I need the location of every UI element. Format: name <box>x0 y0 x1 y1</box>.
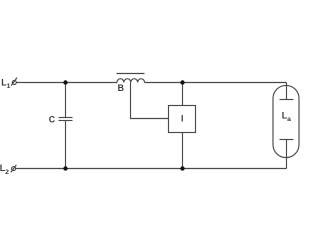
svg-text:L2: L2 <box>0 163 9 176</box>
junction dot: capacitor bottom <box>63 166 67 170</box>
svg-text:I: I <box>181 114 183 124</box>
lamp bottom electrode <box>280 140 294 169</box>
wire: ignitor box down to bottom wire <box>182 133 184 169</box>
junction dot: capacitor top <box>63 80 67 84</box>
lamp top electrode <box>280 83 294 100</box>
ignitor box I <box>169 106 196 133</box>
junction dot: ignitor bottom <box>180 166 184 170</box>
wire bottom: L2 terminal to lamp bottom stem corner <box>16 168 287 170</box>
capacitor C (plates and leads) <box>59 83 73 169</box>
svg-text:C: C <box>49 114 56 124</box>
lamp La outline <box>273 85 299 157</box>
svg-text:La: La <box>282 111 291 124</box>
terminal L1 <box>11 78 17 86</box>
junction dot: ignitor top <box>180 80 184 84</box>
inductor B coil humps <box>117 79 145 83</box>
wire: top node down to ignitor box <box>182 83 184 106</box>
svg-text:L1: L1 <box>1 77 10 90</box>
wire top: inductor to lamp stem corner <box>145 82 287 84</box>
wire: inductor tap down and right to ignitor <box>131 83 169 119</box>
terminal L2 <box>11 165 17 173</box>
svg-text:B: B <box>118 83 124 93</box>
inductor B core line <box>117 73 145 75</box>
wire top: L1 terminal to inductor <box>16 82 117 84</box>
